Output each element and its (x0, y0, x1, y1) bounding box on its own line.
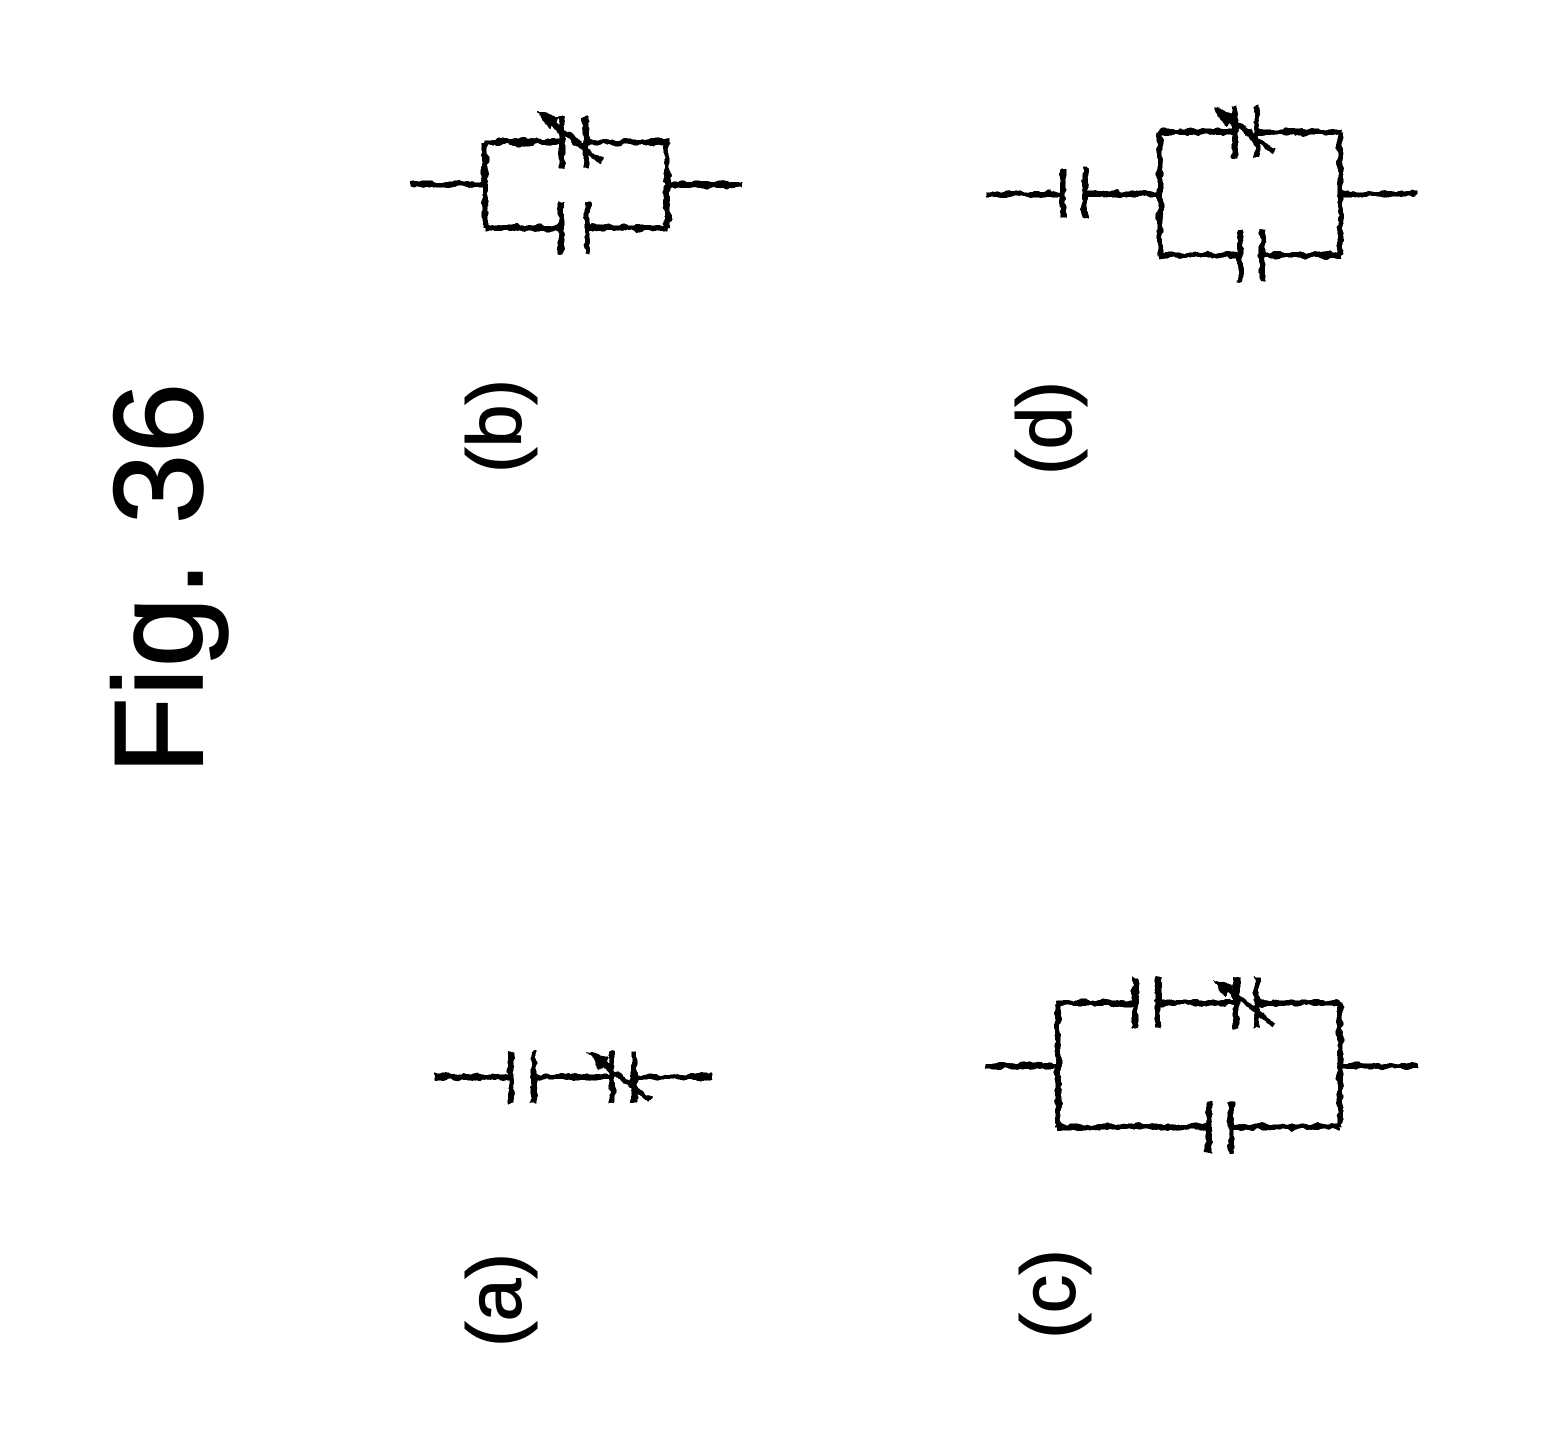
svg-text:Fig. 36: Fig. 36 (88, 382, 229, 774)
capacitor C plates (c top branch) (1135, 977, 1158, 1029)
wire: left lead of (d) (986, 191, 1063, 197)
wire: right vertical of (d) loop (1337, 132, 1343, 255)
arrowhead of variable capacitor (c) (1213, 978, 1236, 998)
wire: bottom edge left segment of (c) (1057, 1124, 1209, 1130)
wire: top edge left segment of (c) (1057, 1000, 1135, 1006)
svg-text:(d): (d) (1002, 381, 1088, 475)
wire: top edge right segment of (b) (586, 139, 668, 145)
svg-text:(c): (c) (1006, 1249, 1092, 1339)
wire: right vertical of (c) loop (1337, 1003, 1343, 1127)
variable capacitor arrow (c) (1227, 988, 1274, 1025)
wire: left lead of (c) (986, 1063, 1058, 1069)
variable capacitor CV plates (a) (612, 1051, 634, 1103)
arrowhead of variable capacitor (b) (537, 111, 560, 131)
wire: bottom edge right segment of (d) (1262, 252, 1341, 258)
capacitor C plates (d series) (1063, 168, 1085, 218)
wire: top edge right segment of (c) (1257, 1000, 1341, 1006)
arrowhead of variable capacitor (a) (587, 1051, 610, 1071)
svg-text:(a): (a) (452, 1253, 538, 1347)
wire: top edge left segment of (b) (484, 139, 562, 145)
capacitor C plates (c bottom branch) (1209, 1101, 1231, 1153)
wire: left vertical of (d) loop (1157, 132, 1163, 255)
wire: right lead of (b) (667, 182, 742, 188)
variable capacitor arrow (d) (1227, 117, 1274, 152)
wire: left vertical of (b) loop (482, 142, 488, 228)
wire: top edge middle segment of (c) (1158, 1000, 1236, 1006)
wire: bottom edge right segment of (b) (587, 225, 668, 231)
wire: right lead of (c) (1340, 1063, 1418, 1069)
wire: right vertical of (b) loop (664, 142, 670, 228)
wire: bottom edge right segment of (c) (1231, 1124, 1341, 1130)
wire: right lead of (a) (634, 1074, 712, 1080)
wire: top edge left segment of (d) (1159, 129, 1235, 135)
variable capacitor arrow (b) (550, 122, 602, 161)
wire: right lead of (d) (1340, 191, 1416, 197)
wire: left lead of (b) (410, 181, 485, 187)
svg-text:(b): (b) (452, 379, 538, 473)
variable capacitor arrow (a) (601, 1062, 650, 1100)
wire: middle link of (a) (534, 1074, 612, 1080)
variable capacitor CV plates (d top branch) (1235, 106, 1257, 158)
capacitor C plates (d bottom branch) (1240, 229, 1262, 281)
wire: bottom edge left segment of (d) (1159, 252, 1240, 258)
capacitor C plates (a) (511, 1051, 534, 1103)
wire: left lead of (a) (435, 1074, 511, 1080)
variable capacitor CV plates (b top branch) (562, 116, 586, 168)
capacitor C plates (b bottom branch) (561, 202, 587, 254)
wire: middle link of (d) (1085, 191, 1160, 197)
variable capacitor CV plates (c top branch) (1236, 977, 1257, 1029)
wire: bottom edge left segment of (b) (484, 225, 561, 231)
arrowhead of variable capacitor (d) (1213, 107, 1236, 127)
wire: left vertical of (c) loop (1055, 1003, 1061, 1127)
wire: top edge right segment of (d) (1257, 129, 1341, 135)
